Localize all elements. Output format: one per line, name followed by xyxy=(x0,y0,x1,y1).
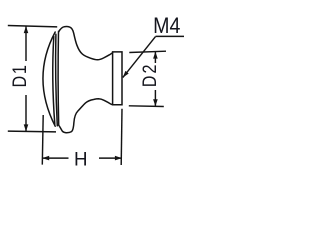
D1 dimension line upper segment xyxy=(25,26,27,61)
D2 top arrow xyxy=(153,52,158,59)
svg-text:D1: D1 xyxy=(9,63,31,87)
svg-text:M4: M4 xyxy=(153,14,181,38)
D1 bottom arrow xyxy=(24,124,29,131)
svg-text:H: H xyxy=(74,149,88,170)
knob face ring 3 xyxy=(57,31,60,125)
D2 top extension line xyxy=(129,51,166,52)
D2 bottom extension line xyxy=(129,105,164,108)
M4 leader diagonal xyxy=(123,37,156,78)
D2 dimension line lower segment xyxy=(154,90,156,106)
knob face ring 2 xyxy=(56,34,58,126)
H dimension line left segment xyxy=(43,157,69,159)
H left arrow xyxy=(42,156,49,161)
D1 top arrow xyxy=(24,26,29,33)
M4 leader underline xyxy=(156,35,185,37)
H dimension line right segment xyxy=(99,157,122,159)
D2 bottom arrow xyxy=(153,99,158,106)
D2 dimension line upper segment xyxy=(154,52,156,63)
D1 bottom extension line xyxy=(8,130,56,133)
base disc xyxy=(113,52,122,105)
knob head left face arc xyxy=(43,32,55,126)
D1 top extension line xyxy=(8,26,57,27)
svg-text:D2: D2 xyxy=(139,62,161,87)
H right extension line xyxy=(120,109,123,165)
H left extension line xyxy=(41,115,44,165)
D1 dimension line lower segment xyxy=(25,95,27,131)
H right arrow xyxy=(115,156,122,161)
M4 leader arrow xyxy=(123,71,129,78)
knob bottom silhouette xyxy=(59,99,113,133)
knob face ring 1 xyxy=(53,37,55,125)
knob top silhouette xyxy=(59,27,113,60)
